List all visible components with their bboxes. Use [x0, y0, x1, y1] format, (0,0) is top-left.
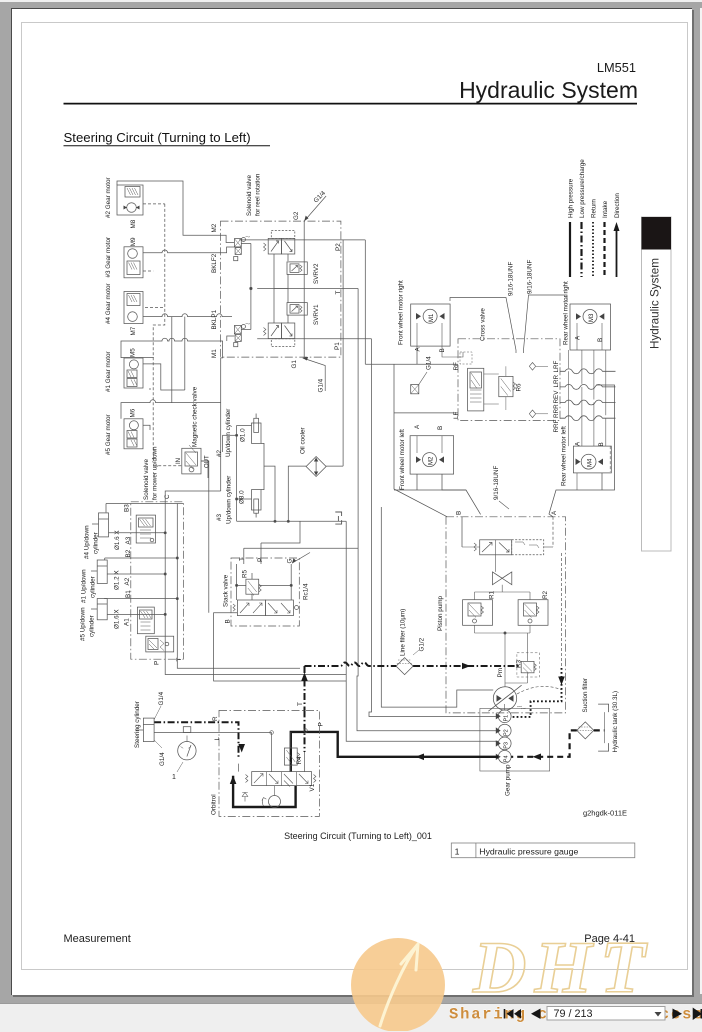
legend low pressure line [580, 222, 582, 277]
gear motor #5 M6 [124, 419, 143, 449]
svg-text:T: T [335, 291, 342, 295]
svg-text:B2: B2 [125, 549, 132, 557]
funnel right to A [549, 385, 615, 517]
drain dashed line [143, 204, 182, 466]
funnel lines into cross valve top [450, 295, 567, 353]
steering valve V1 [252, 772, 312, 786]
G1/4 fitting [411, 385, 419, 394]
svg-text:B: B [437, 426, 444, 430]
up/down cylinder #3 [252, 490, 262, 510]
svg-text:M5: M5 [130, 348, 137, 357]
connectors inside orbitrol [238, 764, 240, 772]
svg-text:Intake: Intake [602, 200, 609, 218]
pressure gauge item 1 [183, 727, 191, 733]
svg-text:B1: B1 [125, 590, 132, 598]
cylinder port joins [261, 443, 275, 521]
svg-text:G1/2: G1/2 [419, 637, 426, 651]
svg-text:R6: R6 [516, 383, 523, 392]
legend return line [592, 222, 594, 277]
watermark circle [351, 938, 445, 1032]
svg-text:OUT: OUT [205, 455, 211, 468]
wire M7 branch down [184, 317, 186, 390]
svg-text:P4: P4 [504, 755, 510, 762]
svg-text:#2 Gear motor: #2 Gear motor [105, 177, 112, 218]
front wheel motor left M2 [410, 436, 454, 474]
svg-text:G2: G2 [293, 211, 300, 220]
sidebar black tab [642, 217, 672, 250]
svg-text:cylinder: cylinder [90, 576, 97, 598]
svg-text:#1 Up/down: #1 Up/down [81, 569, 88, 603]
wire M5 top stubs [121, 357, 154, 360]
svg-text:M2: M2 [211, 223, 218, 232]
svg-text:A: A [415, 347, 422, 352]
svg-text:Gear pump: Gear pump [505, 764, 512, 796]
svg-text:M8: M8 [130, 219, 137, 228]
relief R2 [518, 600, 548, 626]
valve SVRV1 [287, 303, 307, 316]
left bus [236, 425, 238, 521]
relief R4 [284, 748, 297, 765]
svg-text:P1: P1 [334, 342, 341, 350]
solenoid valve bottom pair [268, 323, 281, 339]
svg-text:#5 Gear motor: #5 Gear motor [105, 414, 112, 455]
rail verticals of hoses [568, 350, 570, 368]
nav last-page button [694, 1009, 702, 1019]
orbitrol internal dash-dot [304, 710, 306, 752]
svg-text:P: P [318, 722, 325, 726]
svg-text:A: A [575, 335, 582, 340]
charge solenoid valve [480, 540, 512, 555]
wire M7 to block [143, 314, 232, 317]
nav first-page button [504, 1009, 506, 1019]
svg-text:B: B [439, 348, 446, 352]
svg-text:LRF: LRF [553, 360, 560, 372]
svg-text:G1: G1 [291, 360, 298, 369]
stack valve block [231, 558, 299, 626]
svg-text:cylinder: cylinder [89, 615, 96, 637]
tank symbol on bus [335, 512, 341, 524]
rear wheel motor left M4 [573, 446, 611, 473]
svg-text:Up/down cylinder: Up/down cylinder [226, 476, 233, 524]
svg-text:P2: P2 [504, 729, 510, 736]
svg-text:Oil cooler: Oil cooler [300, 427, 307, 454]
M2 wires [416, 474, 418, 490]
wires cylinders #2 #3 [222, 435, 224, 452]
svg-text:Orbitrol: Orbitrol [211, 794, 218, 815]
solenoid valve top pair [268, 238, 281, 254]
wire check valve out [201, 461, 208, 478]
svg-text:Steering Circuit (Turning to L: Steering Circuit (Turning to Left)_001 [284, 831, 432, 841]
M4 wires down [576, 473, 578, 490]
rail from motor boundary to Pm [381, 507, 493, 707]
svg-text:#3 Gear motor: #3 Gear motor [105, 237, 112, 278]
svg-text:#2: #2 [216, 449, 223, 457]
svg-text:Piston pump: Piston pump [437, 596, 444, 631]
left boundary and funnel to B [394, 364, 447, 517]
svg-text:G1/4: G1/4 [318, 378, 325, 392]
rail T down [357, 289, 359, 667]
relief R6 [499, 376, 513, 396]
svg-text:Pm: Pm [497, 668, 504, 677]
svg-text:Solenoid valve: Solenoid valve [246, 175, 253, 216]
magnetic check valve [182, 448, 201, 474]
svg-text:Ø1.0: Ø1.0 [240, 428, 247, 442]
svg-text:BKLF2: BKLF2 [211, 253, 218, 273]
wire OUT to C node [165, 461, 221, 613]
wire M8 loop to block [117, 181, 234, 243]
up/down cylinder #1 [97, 560, 107, 584]
svg-text:REV: REV [553, 390, 560, 404]
svg-text:R5: R5 [242, 569, 249, 578]
stack valve port stubs [243, 548, 245, 564]
rail jogs to pump [346, 521, 498, 741]
nav prev button [531, 1009, 541, 1020]
main line P2 [239, 239, 365, 241]
valve box upper [136, 515, 155, 543]
bottom bus [237, 520, 347, 522]
wire M6 side stub [143, 425, 150, 430]
svg-text:P2: P2 [335, 243, 342, 251]
svg-text:for mower up/down: for mower up/down [152, 446, 159, 500]
svg-text:#4 Gear motor: #4 Gear motor [105, 283, 112, 324]
svg-text:cylinder: cylinder [93, 532, 100, 554]
valve box small bottom [146, 636, 174, 652]
relief R3 [521, 661, 534, 672]
rear wheel motor right M3 [570, 304, 611, 350]
svg-text:9/16-18UNF: 9/16-18UNF [527, 260, 534, 294]
block vertical buses [164, 496, 166, 660]
legend table [451, 843, 635, 858]
pump section P4 [498, 750, 511, 763]
svg-text:A: A [414, 424, 421, 429]
svg-text:LRR: LRR [553, 374, 560, 387]
svg-text:IN: IN [176, 458, 182, 464]
shuttle bowtie [493, 572, 512, 585]
line filter [396, 658, 413, 675]
svg-text:M9: M9 [130, 237, 137, 246]
svg-text:Front wheel motor left: Front wheel motor left [399, 429, 406, 490]
svg-text:Hydraulic System: Hydraulic System [459, 77, 638, 103]
svg-text:Rc1/4: Rc1/4 [303, 583, 310, 600]
svg-text:RRR: RRR [553, 404, 560, 418]
svg-text:P1: P1 [504, 715, 510, 722]
check valve assembly BKLP1 [234, 326, 241, 334]
svg-text:Ø8.0: Ø8.0 [239, 490, 246, 504]
stack valve B wire [214, 613, 347, 681]
svg-text:M3: M3 [589, 313, 595, 322]
svg-text:High pressure: High pressure [568, 178, 575, 218]
svg-text:A1: A1 [124, 618, 131, 626]
svg-text:P3: P3 [504, 742, 510, 749]
valve box lower [137, 607, 154, 634]
svg-text:RRF: RRF [553, 419, 560, 432]
svg-text:1: 1 [455, 846, 460, 856]
hydraulic tank [598, 704, 609, 712]
svg-text:#5 Up/down: #5 Up/down [80, 607, 87, 641]
svg-text:1: 1 [172, 774, 176, 781]
svg-text:Hydraulic tank (30.3L): Hydraulic tank (30.3L) [612, 691, 619, 753]
svg-text:Steering cylinder: Steering cylinder [134, 701, 141, 748]
svg-text:#1 Gear motor: #1 Gear motor [105, 351, 112, 392]
L line [154, 732, 272, 734]
gear motor #1 M5 [124, 358, 143, 388]
A line arrow down [558, 677, 565, 686]
svg-text:V1: V1 [309, 783, 316, 791]
dashed A line down [561, 553, 563, 668]
svg-text:R: R [212, 716, 219, 721]
svg-text:M1: M1 [429, 313, 435, 322]
rail P1 down [371, 339, 373, 666]
gear pump case [480, 708, 550, 771]
main line T [257, 288, 358, 290]
svg-text:B: B [225, 619, 232, 623]
pump section P1 [498, 710, 511, 723]
svg-text:R3: R3 [516, 659, 523, 668]
cross valve internals [484, 373, 499, 375]
wire M9 to BKLF2 [143, 247, 234, 253]
svg-text:Return: Return [591, 199, 598, 218]
svg-text:Magnetic check valve: Magnetic check valve [192, 386, 199, 447]
svg-text:SVRV1: SVRV1 [313, 304, 320, 325]
svg-text:B: B [598, 442, 605, 446]
svg-text:9/16-18UNF: 9/16-18UNF [508, 262, 515, 296]
internal plumbing [461, 517, 463, 547]
svg-text:A3: A3 [125, 536, 132, 544]
sidebar tab outline [642, 217, 672, 551]
svg-text:Measurement: Measurement [64, 933, 131, 945]
svg-text:Ø1.2 X: Ø1.2 X [114, 570, 121, 590]
node G1 [303, 358, 326, 391]
check diamonds [529, 363, 535, 371]
svg-text:for reel rotation: for reel rotation [255, 173, 262, 216]
center junction line [250, 244, 252, 330]
svg-text:R2: R2 [542, 590, 549, 599]
svg-text:L: L [214, 737, 221, 741]
svg-text:A2: A2 [124, 577, 131, 585]
RF LF lines [365, 363, 458, 365]
svg-text:A: A [575, 441, 582, 446]
steering cylinder [143, 718, 154, 742]
svg-text:B: B [597, 338, 604, 342]
svg-text:Solenoid valve: Solenoid valve [143, 459, 150, 500]
svg-text:M1: M1 [211, 349, 218, 358]
orbitrol return loop thick [233, 776, 296, 807]
svg-text:RF: RF [453, 362, 460, 371]
cross valve block [458, 339, 560, 421]
small check bottom [242, 793, 248, 802]
svg-text:T: T [239, 557, 246, 561]
svg-text:P: P [257, 558, 264, 562]
svg-text:Line filter (10μm): Line filter (10μm) [400, 609, 407, 656]
svg-text:Hydraulic pressure gauge: Hydraulic pressure gauge [479, 847, 578, 857]
svg-text:Low pressure/charge: Low pressure/charge [579, 159, 586, 218]
svg-text:B3: B3 [124, 504, 131, 512]
svg-text:BKLP1: BKLP1 [211, 309, 218, 329]
up/down cylinder #4 [99, 513, 109, 537]
low pressure main dash-dot [305, 663, 397, 667]
up/down cylinder #2 [252, 423, 262, 443]
svg-text:79 / 213: 79 / 213 [554, 1008, 593, 1020]
wire M1 line [121, 336, 234, 491]
watermark arrow [380, 944, 418, 1026]
up/down cylinder #5 [97, 599, 107, 620]
cross valve spool [468, 368, 484, 411]
G port diagonal [292, 553, 310, 564]
steering R line dash-dot [154, 722, 238, 758]
svg-text:G1/4: G1/4 [158, 691, 165, 705]
svg-text:A: A [551, 510, 558, 515]
nav page box [547, 1007, 665, 1021]
piston pump block [446, 517, 566, 713]
svg-text:9/16-18UNF: 9/16-18UNF [493, 466, 500, 500]
svg-text:Rear wheel motor right: Rear wheel motor right [563, 281, 570, 345]
wire M5 side loop [143, 364, 185, 390]
svg-text:Stack valve: Stack valve [223, 574, 230, 607]
legend direction arrow [616, 228, 618, 277]
gear motor #3 M9 [124, 247, 143, 278]
svg-text:Hydraulic System: Hydraulic System [649, 258, 662, 349]
svg-text:P: P [154, 661, 161, 665]
orbitrol block [219, 710, 319, 816]
svg-text:#3: #3 [216, 513, 223, 521]
svg-text:G1/4: G1/4 [159, 752, 166, 766]
main line P1 [257, 338, 371, 340]
suction filter [577, 722, 594, 739]
svg-text:M6: M6 [130, 408, 137, 417]
legend intake line [603, 222, 605, 277]
svg-text:SVRV2: SVRV2 [313, 263, 320, 284]
orbitrol rotor symbol [269, 796, 281, 808]
front wheel motor right M1 [411, 304, 450, 346]
svg-text:R4: R4 [296, 756, 303, 765]
svg-text:Up/down cylinder: Up/down cylinder [225, 409, 232, 457]
svg-text:LM551: LM551 [597, 60, 636, 75]
svg-text:Direction: Direction [614, 193, 621, 218]
solenoid valve for mower up/down block [131, 502, 184, 659]
node G2 with riser [303, 221, 305, 358]
svg-text:Cross valve: Cross valve [480, 308, 487, 341]
hose S-lines between cross valve and rear motors [560, 369, 616, 421]
valve SVRV2 [287, 262, 307, 275]
svg-text:G1/4: G1/4 [426, 356, 433, 370]
gear motor #4 M7 [124, 292, 143, 324]
rail P2 down [342, 240, 344, 466]
pump section P3 [498, 737, 511, 750]
svg-text:Steering Circuit (Turning to L: Steering Circuit (Turning to Left) [64, 130, 251, 145]
low pressure drop to orbitrol T [304, 666, 306, 710]
svg-text:Suction filter: Suction filter [582, 678, 589, 713]
svg-text:B: B [456, 511, 463, 515]
oil cooler pipe [288, 466, 343, 521]
svg-text:M2: M2 [429, 456, 435, 465]
nav next button [673, 1009, 683, 1020]
intake dashed thick [511, 730, 577, 756]
up/down block P T drains [165, 659, 346, 674]
wire M6 top [121, 400, 221, 419]
port lines B3 A3 B2 A2 B1 A1 [106, 503, 183, 505]
spool valve row [237, 600, 265, 616]
check valve assembly BKLF2 [234, 239, 241, 247]
thick P line [291, 732, 499, 772]
pump section P2 [498, 724, 511, 737]
svg-text:DHT: DHT [472, 927, 653, 1009]
relief valve R5 [246, 579, 259, 594]
gear motor #2 M8 [117, 185, 143, 215]
legend high pressure line [569, 222, 571, 277]
relief R1 [463, 600, 493, 626]
svg-text:M7: M7 [130, 326, 137, 335]
svg-text:M4: M4 [588, 458, 594, 467]
header rule [64, 103, 638, 105]
svg-text:T: T [297, 702, 304, 706]
svg-text:#4 Up/down: #4 Up/down [84, 525, 91, 559]
pilot curve [517, 686, 562, 694]
svg-text:Ø1.6 X: Ø1.6 X [114, 609, 121, 629]
svg-text:Front wheel motor right: Front wheel motor right [398, 280, 405, 345]
connectors inside reel block [273, 261, 275, 323]
solenoid valve for reel rotation block [221, 221, 341, 357]
svg-text:g2hgdk-011E: g2hgdk-011E [583, 809, 627, 818]
svg-text:Rear wheel motor left: Rear wheel motor left [561, 426, 568, 486]
stack valve P T feed lines [244, 547, 358, 549]
pump Pm [493, 687, 516, 710]
oil cooler [306, 457, 326, 477]
dotted return to P1 [511, 668, 561, 717]
